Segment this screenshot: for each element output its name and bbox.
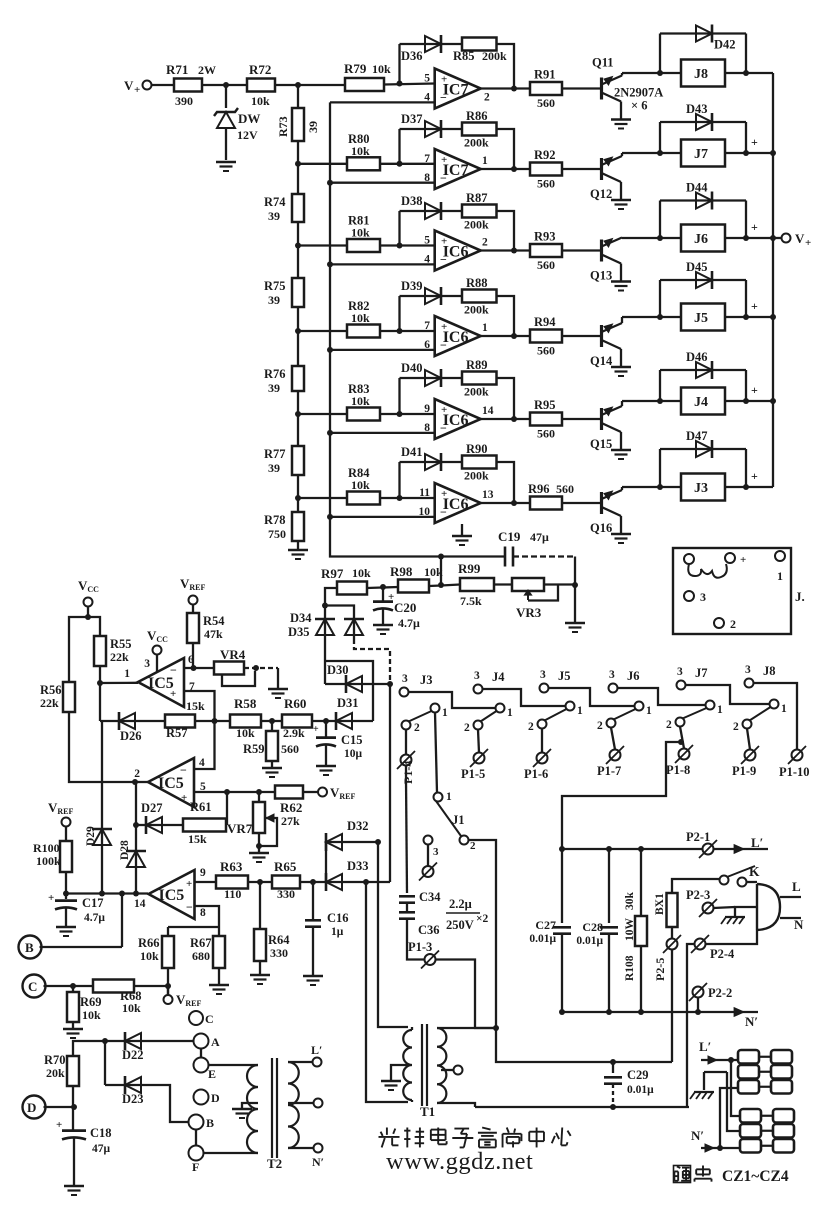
pin P2-4 bbox=[695, 939, 706, 950]
svg-text:1: 1 bbox=[482, 155, 488, 167]
svg-text:L: L bbox=[792, 879, 801, 894]
ground VR4 bbox=[268, 688, 288, 690]
svg-text:D30: D30 bbox=[327, 663, 349, 677]
svg-text:27k: 27k bbox=[281, 814, 300, 828]
svg-text:Q12: Q12 bbox=[590, 187, 612, 201]
svg-text:3: 3 bbox=[540, 669, 546, 681]
node R59 top bbox=[269, 718, 275, 724]
wire feedback right row 1 bbox=[497, 44, 515, 89]
svg-text:+: + bbox=[740, 554, 746, 566]
svg-text:K: K bbox=[749, 864, 760, 879]
wire socket mesh 1 bbox=[731, 1060, 740, 1116]
diode D22 bbox=[105, 1040, 125, 1042]
svg-text:560: 560 bbox=[537, 96, 555, 110]
svg-text:B: B bbox=[25, 940, 34, 955]
svg-text:200k: 200k bbox=[464, 385, 489, 399]
svg-text:D40: D40 bbox=[401, 361, 423, 375]
svg-text:R94: R94 bbox=[534, 315, 556, 329]
svg-text:J8: J8 bbox=[694, 67, 708, 82]
relay J7 bbox=[681, 140, 725, 167]
wire emitter to relay row 3 bbox=[622, 237, 681, 239]
wire emitter to relay row 4 bbox=[622, 316, 681, 318]
diode D26 bbox=[119, 720, 144, 722]
svg-text:1: 1 bbox=[777, 569, 783, 583]
svg-text:DW: DW bbox=[238, 111, 260, 126]
svg-text:P1-7: P1-7 bbox=[597, 764, 621, 778]
svg-text:39: 39 bbox=[268, 293, 280, 307]
node L rail bbox=[559, 846, 565, 852]
svg-text:1: 1 bbox=[507, 707, 513, 719]
terminal Vcc bbox=[84, 598, 93, 607]
svg-text:www.ggdz.net: www.ggdz.net bbox=[386, 1148, 533, 1175]
svg-text:P1-5: P1-5 bbox=[461, 767, 485, 781]
node pin6 bbox=[191, 665, 197, 671]
svg-text:P1-6: P1-6 bbox=[524, 767, 548, 781]
svg-text:J5: J5 bbox=[694, 311, 708, 326]
transistor Q11 bbox=[600, 78, 603, 100]
wire bus to -input row 3 bbox=[330, 263, 435, 265]
wire D36 to R85 bbox=[441, 43, 462, 45]
wire pin8 bbox=[195, 906, 220, 927]
resistor R94 560 bbox=[530, 330, 562, 343]
pin P2-3 bbox=[703, 903, 714, 914]
wire R55 to out1 bbox=[99, 666, 101, 683]
node C16 top bbox=[310, 879, 316, 885]
node relay left row 3 bbox=[657, 235, 663, 241]
resistor R87 200k bbox=[462, 205, 497, 218]
wire relay right row 5 bbox=[725, 400, 773, 402]
ground below DW bbox=[216, 161, 236, 163]
svg-text:0.01μ: 0.01μ bbox=[576, 935, 603, 947]
svg-text:N′: N′ bbox=[745, 1014, 758, 1029]
resistor R73 bbox=[297, 85, 299, 108]
wire chain J6 to J7 bbox=[618, 688, 706, 705]
svg-text:R56: R56 bbox=[40, 683, 62, 697]
diode D29 bbox=[101, 721, 103, 828]
svg-text:R57: R57 bbox=[166, 726, 188, 740]
svg-text:L′: L′ bbox=[699, 1039, 711, 1054]
op-amp IC7 row 2 bbox=[435, 149, 481, 189]
wire pin4 up bbox=[194, 721, 215, 769]
node relay right row 4 bbox=[743, 314, 749, 320]
svg-text:1: 1 bbox=[781, 703, 787, 715]
svg-text:R79: R79 bbox=[344, 61, 367, 76]
svg-text:15k: 15k bbox=[186, 699, 205, 713]
node relay left row 2 bbox=[657, 150, 663, 156]
diode D42 bbox=[659, 34, 661, 74]
relay J4 bbox=[681, 388, 725, 415]
wire Vcc down bbox=[87, 607, 89, 618]
pin below J1 bbox=[427, 845, 429, 867]
svg-text:560: 560 bbox=[537, 427, 555, 441]
wire opamp out row 1 bbox=[481, 87, 530, 89]
resistor R70 20k bbox=[67, 1056, 79, 1086]
wire P2-4 down bbox=[687, 944, 695, 1107]
relay J8 bbox=[681, 60, 725, 87]
svg-text:R90: R90 bbox=[466, 442, 488, 456]
svg-text:10k: 10k bbox=[424, 565, 443, 579]
svg-text:47μ: 47μ bbox=[530, 530, 549, 544]
svg-text:200k: 200k bbox=[464, 469, 489, 483]
svg-text:P1-10: P1-10 bbox=[779, 765, 810, 779]
resistor R58 10k bbox=[230, 715, 261, 728]
svg-text:−: − bbox=[440, 505, 447, 519]
node relay right row 2 bbox=[743, 150, 749, 156]
svg-text:D43: D43 bbox=[686, 102, 708, 116]
node ladder top bbox=[295, 82, 301, 88]
wire out2 down bbox=[135, 782, 137, 825]
T1 sec bottom bbox=[437, 1103, 475, 1107]
circle C small bbox=[189, 1011, 203, 1025]
capacitor C29 bbox=[612, 1062, 614, 1073]
svg-text:R85: R85 bbox=[453, 49, 475, 63]
arrow N bbox=[734, 1008, 744, 1017]
svg-text:330: 330 bbox=[277, 887, 295, 901]
node relay right row 1 bbox=[743, 70, 749, 76]
relay J3 bbox=[681, 474, 725, 501]
resistor R97 10k bbox=[337, 582, 367, 595]
svg-text:1: 1 bbox=[646, 705, 652, 717]
wire D35 down bbox=[354, 639, 390, 684]
resistor R72 bbox=[247, 79, 275, 92]
terminal A bbox=[194, 1034, 209, 1049]
resistor R83 bbox=[347, 408, 380, 421]
wire base row 6 bbox=[562, 502, 601, 504]
diode D43 bbox=[659, 122, 661, 153]
resistor R78 bbox=[292, 512, 304, 541]
terminal N' T2 bbox=[314, 1144, 323, 1153]
wire J1 to mains bbox=[469, 840, 673, 1062]
T2 primary ground bbox=[242, 1103, 258, 1108]
svg-text:R77: R77 bbox=[264, 447, 286, 461]
svg-text:R62: R62 bbox=[280, 800, 302, 815]
svg-text:2.9k: 2.9k bbox=[283, 726, 305, 740]
wire BX1 top to K bbox=[672, 879, 719, 893]
resistor R67 680 bbox=[213, 936, 225, 968]
svg-text:J7: J7 bbox=[695, 666, 708, 680]
ground Q16 bbox=[611, 533, 631, 535]
ground C20 bbox=[373, 624, 393, 626]
wire down to VR3 node bbox=[574, 557, 576, 586]
svg-text:2: 2 bbox=[597, 720, 603, 732]
diode D27 bbox=[146, 824, 166, 826]
switch J6 bbox=[609, 684, 618, 693]
wire ladder seg 0 bbox=[297, 141, 299, 194]
wire feedback right row 4 bbox=[497, 296, 515, 336]
wire emitter to relay row 6 bbox=[622, 486, 681, 488]
svg-text:1: 1 bbox=[482, 322, 488, 334]
switch J8 bbox=[745, 679, 754, 688]
wire pin14 row bbox=[66, 892, 148, 894]
node VR3 right bbox=[572, 582, 578, 588]
svg-text:−: − bbox=[440, 338, 447, 352]
diode D41 bbox=[424, 461, 441, 463]
wire ladder seg 4 bbox=[297, 475, 299, 512]
svg-text:10k: 10k bbox=[351, 144, 370, 158]
node relay right row 6 bbox=[743, 484, 749, 490]
svg-text:14: 14 bbox=[134, 898, 146, 910]
op-amp IC5 unit3 bbox=[149, 870, 195, 919]
svg-text:+: + bbox=[170, 688, 176, 700]
node T1 sec top bbox=[493, 1025, 499, 1031]
wire N rail bbox=[562, 1011, 758, 1013]
node bus row 2 bbox=[327, 180, 333, 186]
svg-text:R78: R78 bbox=[264, 513, 286, 527]
terminal B bbox=[19, 936, 42, 959]
op-amp IC6 row 5 bbox=[435, 399, 481, 439]
wire R66 bottom bbox=[167, 968, 169, 995]
wire bus to -input row 1 bbox=[330, 101, 435, 103]
svg-text:D29: D29 bbox=[85, 826, 97, 846]
node bus row 4 bbox=[327, 347, 333, 353]
svg-text:22k: 22k bbox=[40, 696, 59, 710]
svg-text:2.2μ: 2.2μ bbox=[449, 897, 472, 911]
svg-text:R88: R88 bbox=[466, 276, 488, 290]
svg-text:560: 560 bbox=[556, 482, 574, 496]
svg-text:BX1: BX1 bbox=[654, 893, 666, 915]
svg-text:R74: R74 bbox=[264, 195, 286, 209]
wire feedback left row 4 bbox=[398, 296, 400, 331]
capacitor C20 4.7u bbox=[382, 587, 384, 601]
wire R70 top bbox=[73, 1041, 105, 1056]
svg-text:J.: J. bbox=[795, 589, 805, 604]
svg-text:+: + bbox=[751, 220, 758, 234]
resistor R100 100k bbox=[65, 827, 67, 842]
svg-text:1: 1 bbox=[577, 705, 583, 717]
svg-text:9: 9 bbox=[424, 403, 430, 415]
fuse BX1 bbox=[667, 893, 678, 927]
svg-text:R67: R67 bbox=[190, 936, 212, 950]
wire D33 right bbox=[346, 881, 390, 883]
svg-text:C17: C17 bbox=[82, 896, 104, 910]
node +input row 3 bbox=[397, 243, 403, 249]
J1 pin 1 bbox=[775, 551, 785, 561]
resistor R59 560 bbox=[271, 721, 273, 731]
wire feedback right row 6 bbox=[497, 462, 515, 503]
wire bus to -input row 6 bbox=[330, 516, 435, 518]
transistor Q13 bbox=[600, 240, 603, 262]
op-amp IC6 row 3 bbox=[435, 231, 481, 271]
svg-text:V: V bbox=[124, 78, 134, 93]
wire R97-R98 bbox=[367, 587, 398, 588]
svg-text:−: − bbox=[186, 900, 193, 914]
wire R60-D31 bbox=[312, 720, 336, 722]
svg-text:D46: D46 bbox=[686, 350, 708, 364]
svg-text:J3: J3 bbox=[694, 481, 708, 496]
svg-text:R59: R59 bbox=[243, 742, 265, 756]
svg-text:4: 4 bbox=[199, 757, 205, 769]
pin P1-3 bbox=[425, 954, 436, 965]
wire ladder to R84 bbox=[298, 497, 347, 499]
resistor R96 560 bbox=[530, 497, 562, 510]
terminal E bbox=[194, 1058, 209, 1073]
wire D34 down bbox=[324, 639, 326, 684]
capacitor C19 47u bbox=[504, 547, 507, 567]
svg-text:R66: R66 bbox=[138, 936, 160, 950]
wire ladder to R80 bbox=[298, 163, 347, 165]
diode D38 bbox=[424, 210, 441, 212]
wire pin9 bbox=[195, 881, 217, 883]
node R57/R58 bbox=[212, 718, 218, 724]
terminal F bbox=[189, 1146, 204, 1161]
ground Q11 bbox=[611, 118, 631, 120]
wire ladder seg 3 bbox=[297, 391, 299, 446]
ground R67 bbox=[218, 968, 220, 984]
diode D39 bbox=[424, 295, 441, 297]
resistor R56 22k bbox=[63, 682, 75, 712]
svg-text:Q11: Q11 bbox=[592, 56, 614, 70]
svg-text:+: + bbox=[441, 236, 447, 248]
svg-text:R71: R71 bbox=[166, 62, 188, 77]
svg-text:D28: D28 bbox=[119, 840, 131, 860]
node relay right row 5 bbox=[743, 398, 749, 404]
wire opamp out row 6 bbox=[481, 502, 530, 504]
svg-text:R92: R92 bbox=[534, 148, 556, 162]
wire D26-R57 bbox=[144, 720, 165, 722]
switch J4 bbox=[474, 685, 483, 694]
wire D40 to R89 bbox=[441, 377, 462, 379]
svg-text:+: + bbox=[441, 404, 447, 416]
wire to R56 bbox=[69, 617, 88, 682]
resistor R69 10k bbox=[72, 986, 74, 992]
node output row 4 bbox=[511, 333, 517, 339]
node ladder junction 1 bbox=[295, 161, 301, 167]
transformer T1 core bbox=[421, 1024, 423, 1106]
wire pin6 bbox=[184, 667, 214, 669]
svg-text:D47: D47 bbox=[686, 429, 708, 443]
wire D22 to D23 bbox=[104, 1041, 106, 1085]
wire socket gnd bbox=[704, 1071, 727, 1073]
node D33 right bbox=[363, 879, 369, 885]
svg-text:0.01μ: 0.01μ bbox=[529, 933, 556, 945]
diode D45 bbox=[659, 280, 661, 317]
svg-text:J4: J4 bbox=[694, 395, 708, 410]
terminal Vcc2 bbox=[153, 646, 162, 655]
node C15 top bbox=[323, 718, 329, 724]
node R98 top bbox=[438, 554, 444, 560]
svg-text:C28: C28 bbox=[582, 920, 603, 934]
node bus row 4 right bbox=[770, 314, 776, 320]
svg-text:R70: R70 bbox=[44, 1053, 66, 1067]
svg-text:7: 7 bbox=[424, 153, 430, 165]
svg-text:P2-4: P2-4 bbox=[710, 947, 735, 961]
wire J3 c1 to J1 bbox=[435, 713, 437, 793]
svg-text:−: − bbox=[440, 421, 447, 435]
svg-text:20k: 20k bbox=[46, 1066, 65, 1080]
wire C36 to P1-3 bbox=[407, 919, 424, 960]
svg-text:6: 6 bbox=[424, 339, 430, 351]
node +input row 6 bbox=[397, 495, 403, 501]
wire base row 3 bbox=[562, 249, 601, 251]
resistor R66 10k bbox=[162, 936, 174, 968]
svg-text:R108: R108 bbox=[624, 955, 636, 981]
svg-text:C29: C29 bbox=[627, 1068, 649, 1082]
svg-text:2: 2 bbox=[464, 722, 470, 734]
resistor R64 330 bbox=[259, 882, 261, 929]
svg-text:P1-8: P1-8 bbox=[666, 763, 690, 777]
svg-text:200k: 200k bbox=[482, 49, 507, 63]
svg-text:R99: R99 bbox=[458, 561, 481, 576]
svg-text:250V: 250V bbox=[446, 918, 474, 932]
resistor R82 bbox=[347, 325, 380, 338]
wire R56 to out2 bbox=[69, 712, 135, 782]
wire R83 to opamp bbox=[380, 413, 435, 415]
op-amp IC6 row 4 bbox=[435, 316, 481, 356]
terminal L' T2 bbox=[313, 1058, 322, 1067]
capacitor C17 4.7u bbox=[65, 894, 67, 900]
svg-text:R69: R69 bbox=[80, 995, 102, 1009]
node ladder junction 4 bbox=[295, 411, 301, 417]
svg-text:C15: C15 bbox=[341, 733, 363, 747]
svg-text:R91: R91 bbox=[534, 68, 556, 82]
transformer T2 primary bbox=[247, 1065, 258, 1153]
wire D33 to T1 bbox=[366, 882, 408, 1102]
svg-text:D41: D41 bbox=[401, 445, 423, 459]
svg-text:Q16: Q16 bbox=[590, 521, 612, 535]
svg-text:R61: R61 bbox=[190, 800, 212, 814]
wire chain J4 to J5 bbox=[483, 689, 566, 706]
resistor R89 200k bbox=[462, 372, 497, 385]
svg-text:10k: 10k bbox=[122, 1001, 141, 1015]
switch J5 bbox=[540, 684, 549, 693]
svg-text:2N2907A: 2N2907A bbox=[614, 86, 663, 100]
svg-text:R72: R72 bbox=[249, 62, 271, 77]
terminal D small bbox=[194, 1090, 209, 1105]
node ladder junction 2 bbox=[295, 243, 301, 249]
node D22 junction bbox=[102, 1038, 108, 1044]
resistor R95 560 bbox=[530, 413, 562, 426]
node +input row 1 bbox=[397, 81, 403, 87]
wire L rail bbox=[562, 848, 768, 850]
svg-text:2: 2 bbox=[666, 719, 672, 731]
svg-text:3: 3 bbox=[700, 590, 706, 604]
wire P1-3 right bbox=[436, 960, 497, 1029]
resistor R68 10k bbox=[93, 980, 134, 993]
svg-text:10W: 10W bbox=[624, 918, 636, 942]
capacitor C18 47u bbox=[62, 1129, 86, 1132]
capacitor C15 10u bbox=[325, 721, 327, 737]
diode D34 bbox=[324, 606, 326, 619]
wire R66/R67 top bbox=[168, 926, 219, 928]
svg-text:J6: J6 bbox=[694, 232, 708, 247]
node R64 top bbox=[257, 879, 263, 885]
svg-text:T1: T1 bbox=[420, 1104, 435, 1119]
wire B-F link bbox=[195, 1130, 197, 1146]
svg-text:10k: 10k bbox=[251, 94, 270, 108]
svg-text:R64: R64 bbox=[268, 933, 290, 947]
ground Q13 bbox=[611, 280, 631, 282]
potentiometer VR7 bbox=[258, 792, 260, 802]
node +input row 4 bbox=[397, 328, 403, 334]
wire ladder seg 2 bbox=[297, 307, 299, 366]
svg-text:R73: R73 bbox=[276, 116, 290, 137]
relay J5 bbox=[681, 304, 725, 331]
wire pin7 bbox=[184, 691, 215, 721]
svg-text:680: 680 bbox=[192, 949, 210, 963]
wire D41 to R90 bbox=[441, 461, 462, 463]
svg-text:C19: C19 bbox=[498, 529, 521, 544]
wire socket mesh 3 bbox=[720, 1088, 739, 1148]
wire out2 left bbox=[135, 781, 148, 783]
transistor Q16 bbox=[600, 492, 603, 514]
wire ladder to R81 bbox=[298, 244, 347, 246]
svg-text:+: + bbox=[313, 724, 319, 735]
node A1 bbox=[223, 82, 229, 88]
svg-text:Q14: Q14 bbox=[590, 354, 613, 368]
svg-text:750: 750 bbox=[268, 527, 286, 541]
svg-text:1μ: 1μ bbox=[331, 926, 344, 938]
node D junction bbox=[71, 1104, 77, 1110]
